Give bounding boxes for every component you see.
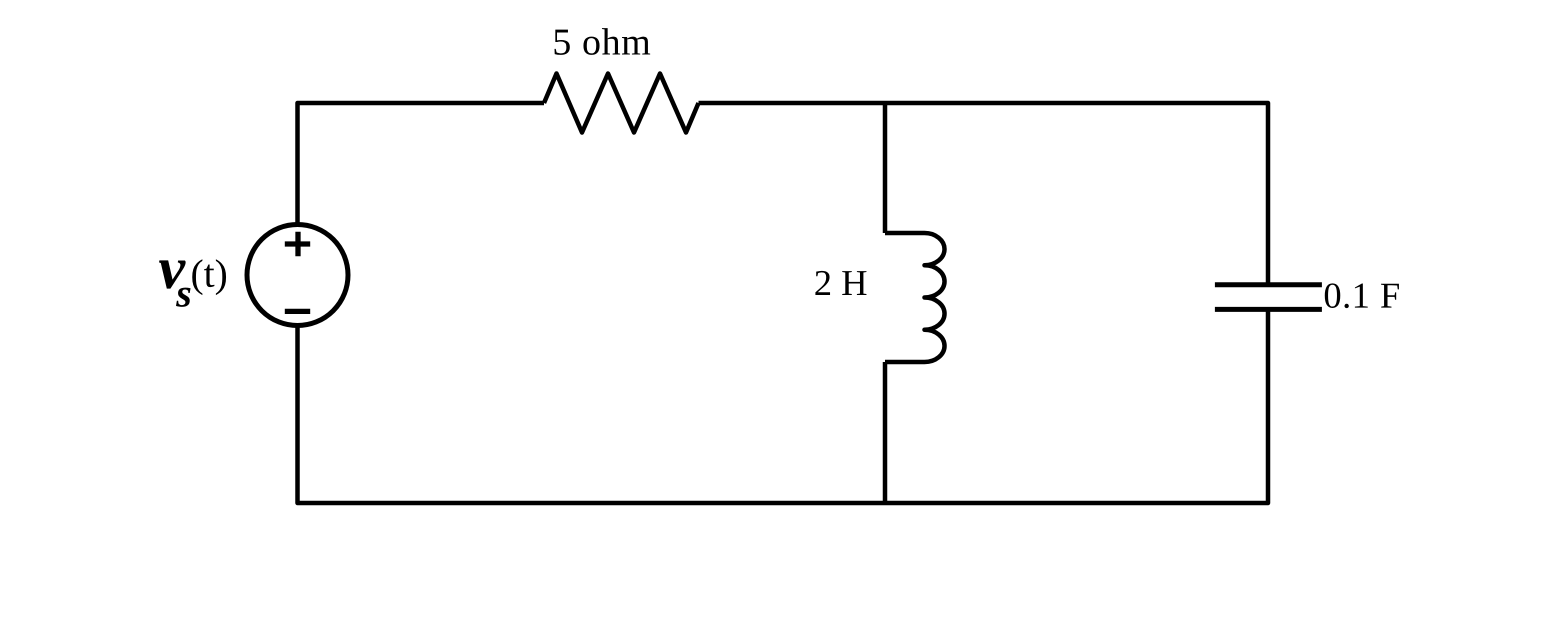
label vs source voltage v (159, 260, 186, 288)
wire: middle branch bottom (inductor to bottom rail) (883, 362, 888, 503)
wire: middle branch top (junction at top rail to inductor) (883, 103, 888, 233)
label vs subscript s (176, 288, 191, 307)
label (t) (192, 259, 226, 295)
minus sign of source (285, 309, 310, 314)
plus sign of source (285, 232, 310, 256)
wire: resistor right lead to top-right corner (699, 103, 1269, 285)
inductor L1 (2 H) (885, 233, 945, 362)
capacitor C1 top plate (1215, 282, 1322, 287)
label 0.1 F (1325, 283, 1399, 308)
capacitor C1 bottom plate (1215, 307, 1322, 312)
voltage source V1 circle (247, 225, 348, 326)
label 5 ohm (555, 28, 651, 55)
wire: capacitor bottom plate to bottom-right corner to bottom rail (298, 309, 1269, 503)
wire: source top to top-left corner to resistor left lead (298, 103, 545, 225)
resistor R1 zigzag (5 ohm) (544, 74, 699, 133)
label 2 H (815, 271, 866, 295)
